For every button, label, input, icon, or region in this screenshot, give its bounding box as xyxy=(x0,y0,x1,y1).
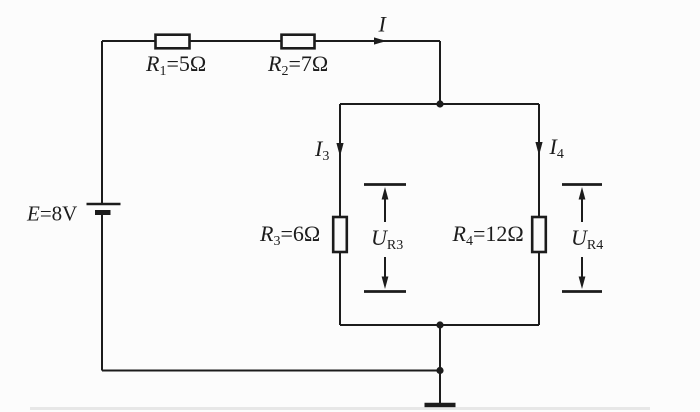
wire inner top horizontal (node A rail) xyxy=(340,103,539,105)
svg-text:R2=7Ω: R2=7Ω xyxy=(267,51,328,79)
wire bottom horizontal xyxy=(102,370,440,372)
bottom node junction dot xyxy=(436,367,443,374)
wire branch R4 vertical xyxy=(538,104,540,325)
ground xyxy=(425,403,456,408)
voltage arrow U_R3 bottom bar xyxy=(364,290,406,293)
wire node B down to bottom wire xyxy=(439,325,441,371)
resistor R4 xyxy=(532,217,546,252)
wire inner bottom horizontal (node B rail) xyxy=(340,324,539,326)
voltage arrow U_R4 lower arrow xyxy=(579,257,586,289)
node B junction dot xyxy=(436,321,443,328)
resistor R2 xyxy=(282,35,315,49)
svg-text:E=8V: E=8V xyxy=(26,202,77,226)
voltage arrow U_R3 top bar xyxy=(364,183,406,186)
wire top horizontal from battery to mid node xyxy=(102,40,440,42)
voltage arrow U_R3 lower arrow xyxy=(382,257,389,289)
resistor R1 xyxy=(156,35,190,49)
svg-text:R4=12Ω: R4=12Ω xyxy=(452,221,524,249)
arrowhead current I3 on R3 branch xyxy=(336,143,343,157)
wire left vertical lower (battery - to bottom wire) xyxy=(101,214,103,371)
wire mid vertical upper (top wire down to node A) xyxy=(439,41,441,104)
node A junction dot xyxy=(436,100,443,107)
wire branch R3 vertical xyxy=(339,104,341,325)
battery E short negative plate xyxy=(95,210,111,215)
voltage arrow U_R4 bottom bar xyxy=(562,290,602,293)
voltage arrow U_R4 upper arrow xyxy=(579,187,586,222)
wire left vertical upper (battery + to top wire) xyxy=(101,41,103,203)
resistor R3 xyxy=(333,217,347,252)
svg-text:R1=5Ω: R1=5Ω xyxy=(145,51,206,79)
voltage arrow U_R4 top bar xyxy=(562,183,602,186)
arrowhead current I4 on R4 branch xyxy=(535,142,542,156)
wire bottom node to ground xyxy=(439,371,441,404)
arrowhead current I on top wire xyxy=(374,37,387,44)
svg-text:R3=6Ω: R3=6Ω xyxy=(259,221,320,249)
voltage arrow U_R3 upper arrow xyxy=(382,187,389,222)
battery E (cell symbol) long positive plate xyxy=(87,203,121,206)
